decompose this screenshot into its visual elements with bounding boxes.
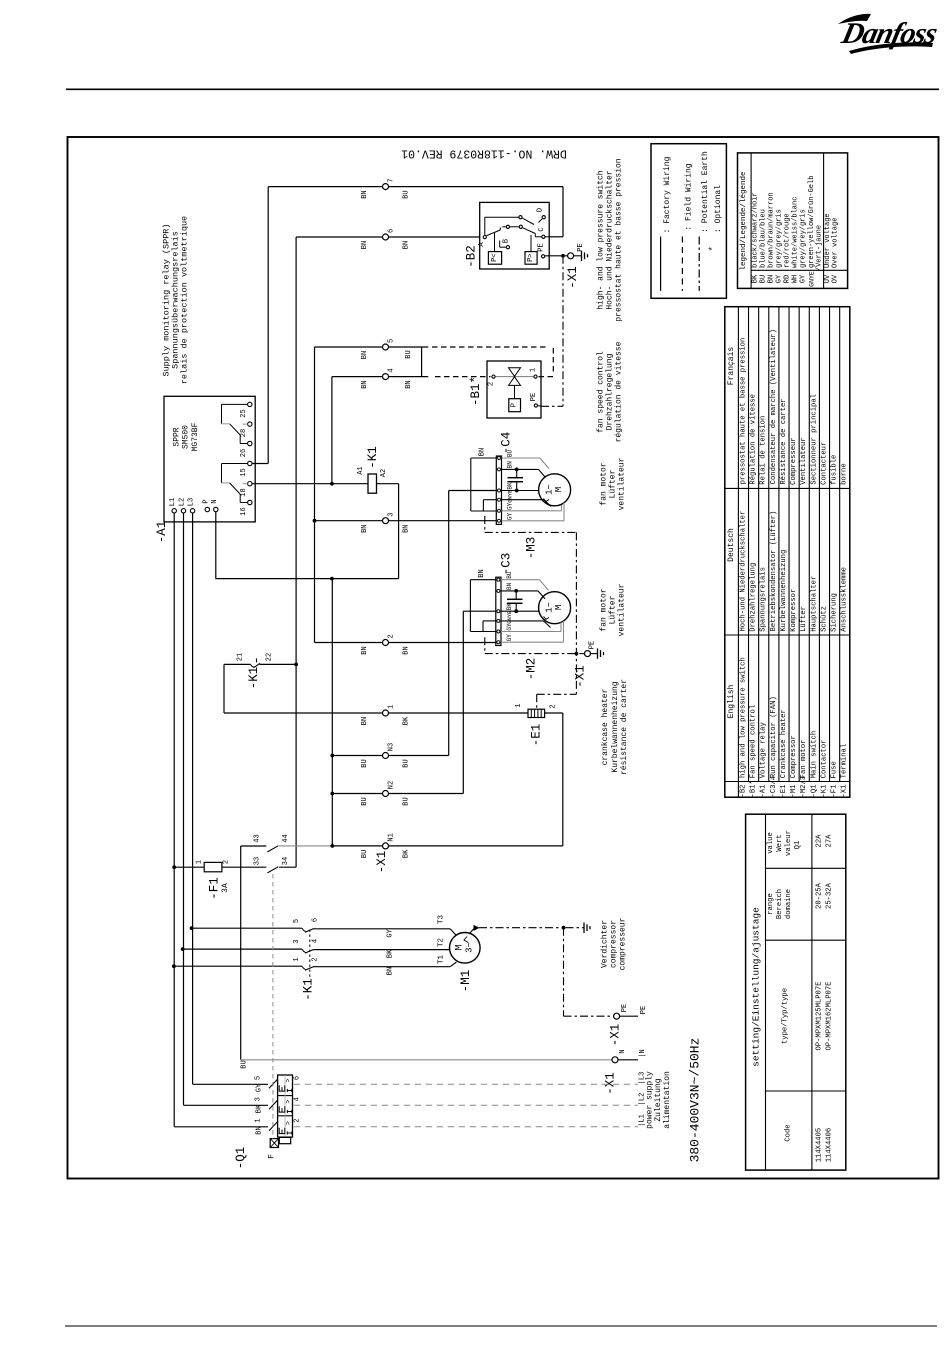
svg-text:Lüfter: Lüfter <box>609 595 618 624</box>
svg-text:-X1: -X1 <box>574 665 588 688</box>
svg-text:régulation de vitesse: régulation de vitesse <box>615 341 624 442</box>
wire 1 left <box>224 712 383 714</box>
wire 7 right <box>389 186 564 188</box>
svg-text:BU: BU <box>506 571 513 579</box>
main switch Q1 aux contact 43-44 <box>241 845 267 847</box>
svg-text:Anschlussklemme: Anschlussklemme <box>841 567 849 632</box>
svg-text:2: 2 <box>223 860 231 864</box>
svg-text:GY: GY <box>507 513 514 521</box>
K1 linkage dashed <box>309 930 311 979</box>
svg-text:Contacteur: Contacteur <box>820 442 828 485</box>
svg-text:value: value <box>767 832 775 854</box>
svg-text:BN: BN <box>361 380 369 388</box>
svg-text:GY: GY <box>800 274 808 283</box>
svg-text:15: 15 <box>240 468 248 476</box>
A1 contact 18 <box>248 482 252 486</box>
svg-text:fan motor: fan motor <box>600 462 609 505</box>
svg-text:BU: BU <box>405 350 413 358</box>
wire 7 drop to B2-C <box>562 187 564 237</box>
wire E1-2 down to N1 <box>562 713 564 846</box>
wire to X1-PE <box>565 255 568 257</box>
svg-text:Spannungsrelais: Spannungsrelais <box>760 567 768 632</box>
svg-text:F: F <box>268 1154 277 1159</box>
svg-text:6: 6 <box>294 1076 302 1080</box>
legend box colour codes <box>738 153 848 289</box>
wire N from A1 down <box>215 512 217 579</box>
junction wire3/wire5 bus <box>313 519 317 523</box>
svg-text:black/schwarz/noir: black/schwarz/noir <box>752 192 760 268</box>
svg-text:alimentation: alimentation <box>663 1071 672 1129</box>
svg-text:1: 1 <box>515 704 523 708</box>
M2 wiring BK <box>501 610 539 612</box>
terminal X1:4 <box>383 374 389 380</box>
svg-text:-F1: -F1 <box>208 877 222 900</box>
M3 thermal contact <box>544 499 550 502</box>
svg-text:BN: BN <box>361 524 369 532</box>
svg-text:44: 44 <box>282 834 290 842</box>
svg-text:Verdichter: Verdichter <box>601 920 610 968</box>
wire 1 right to E1 <box>389 712 529 714</box>
Danfoss logo <box>838 14 940 54</box>
svg-text:3: 3 <box>293 939 301 943</box>
svg-text:Q1: Q1 <box>794 841 802 850</box>
junction M1 PE <box>562 926 566 930</box>
Q1 aux block <box>279 1137 290 1143</box>
svg-text:grey/grey/gris: grey/grey/gris <box>800 209 808 268</box>
svg-text:-X1: -X1 <box>566 266 580 289</box>
fan speed control B1 box <box>487 361 541 418</box>
ground symbol (B2 group) <box>581 251 583 261</box>
M3 wiring BN <box>502 468 539 470</box>
svg-text:BK: BK <box>752 274 760 283</box>
Q1 trip bar grey <box>284 1075 286 1137</box>
svg-text:1: 1 <box>196 860 204 864</box>
svg-text:BN: BN <box>478 569 486 577</box>
svg-text:: Potential Earth: : Potential Earth <box>701 151 710 233</box>
svg-text:Régulation de vitesse: Régulation de vitesse <box>750 394 758 485</box>
wire 2 left <box>315 642 383 644</box>
svg-text:43: 43 <box>254 834 262 842</box>
field wire to B1-1 dashed <box>539 376 554 378</box>
compressor motor M1 <box>450 933 481 964</box>
legend sample field wiring <box>681 237 683 291</box>
wire L3 bus vertical <box>192 512 194 1085</box>
svg-text:Betriebskondensator (Lüfter): Betriebskondensator (Lüfter) <box>770 511 778 632</box>
svg-text:BK: BK <box>506 603 513 611</box>
legend UV divider <box>823 153 825 289</box>
B1 terminal 1 <box>534 375 537 378</box>
terminal X1:N3 <box>383 753 389 759</box>
svg-text:Deutsch: Deutsch <box>727 528 736 562</box>
svg-text:Fan motor: Fan motor <box>800 740 808 779</box>
svg-text:Français: Français <box>727 347 736 386</box>
svg-text:D: D <box>537 208 545 212</box>
B2 P> link <box>530 235 532 252</box>
svg-text:BN: BN <box>361 717 369 725</box>
wire 7 vertical to A1-26 <box>267 187 269 464</box>
junction F1 tap on L1 <box>172 865 176 869</box>
svg-text:P: P <box>202 499 210 503</box>
svg-text:BK: BK <box>386 949 394 958</box>
svg-text:ventilateur: ventilateur <box>618 457 627 510</box>
svg-text:fan motor: fan motor <box>600 588 609 631</box>
svg-text:white/weiss/blanc: white/weiss/blanc <box>792 197 800 268</box>
legend box line styles <box>651 144 726 299</box>
wire 6 left <box>296 236 382 238</box>
Q1 linkage dashed <box>272 874 274 1139</box>
svg-text:BU: BU <box>361 850 369 858</box>
wire neutral supply vertical <box>240 846 242 1060</box>
svg-text:fusible: fusible <box>831 455 839 485</box>
svg-text:GY: GY <box>386 928 394 937</box>
svg-text:grey/grey/gris: grey/grey/gris <box>776 209 784 268</box>
M3 wiring BK <box>502 490 539 492</box>
svg-text:T3: T3 <box>438 915 446 925</box>
crankcase heater E1 <box>528 709 545 717</box>
C3 strip terminal <box>497 619 500 622</box>
M3 wiring GNYE <box>502 499 545 501</box>
svg-text:BN: BN <box>767 275 775 283</box>
wire N horizontal <box>215 578 398 580</box>
svg-text:-K1: -K1 <box>247 667 261 690</box>
A1 contact internal wiring lower <box>222 463 248 465</box>
svg-text:>: > <box>285 1078 293 1082</box>
M2 thermal contact <box>544 616 550 619</box>
A1 contact 26 <box>248 441 252 445</box>
svg-text:1: 1 <box>388 705 396 709</box>
svg-text:2: 2 <box>550 704 558 708</box>
svg-text:A1: A1 <box>357 466 365 474</box>
wire 3 left <box>315 520 383 522</box>
A1 terminal N <box>214 507 218 511</box>
svg-text:-Q1: -Q1 <box>234 1147 248 1170</box>
svg-text:BN: BN <box>361 646 369 654</box>
svg-text:Relai de tension: Relai de tension <box>760 416 768 485</box>
svg-text:Bereich: Bereich <box>776 889 784 919</box>
contactor K1 main contact 5-6 <box>192 927 302 929</box>
svg-text:3: 3 <box>254 1097 262 1101</box>
svg-text:L3: L3 <box>187 498 195 506</box>
svg-text:22A: 22A <box>816 834 824 848</box>
svg-text:N3: N3 <box>388 743 396 751</box>
svg-text:PE: PE <box>640 1006 648 1014</box>
wire 4 left <box>332 376 383 378</box>
svg-text:Compressor: Compressor <box>790 735 798 778</box>
svg-text:BN: BN <box>386 967 394 975</box>
svg-text:GY: GY <box>776 274 784 283</box>
ground symbol (M1) <box>583 923 585 933</box>
svg-text:*: * <box>708 246 718 251</box>
svg-text:BN: BN <box>506 582 513 590</box>
wire A2 down <box>398 484 400 579</box>
svg-text:UV: UV <box>824 274 832 283</box>
svg-text:C: C <box>538 227 546 231</box>
svg-text:relais de protection voltmetri: relais de protection voltmetrique <box>180 216 190 384</box>
svg-text:|L1: |L1 <box>639 1114 647 1127</box>
svg-text:borne: borne <box>841 463 849 485</box>
svg-text:114X4406: 114X4406 <box>826 1128 834 1163</box>
svg-text:27A: 27A <box>826 834 834 848</box>
svg-text:1: 1 <box>293 957 301 961</box>
terminal X1:PE (fans) <box>585 651 591 657</box>
svg-text:type/Typ/type: type/Typ/type <box>781 988 789 1044</box>
legend header divider <box>750 153 752 289</box>
A1 contact 16 <box>248 500 252 504</box>
svg-text:compressor: compressor <box>610 920 619 968</box>
svg-text:1~: 1~ <box>545 602 555 613</box>
C3 strip terminal <box>497 630 500 633</box>
M2 wiring GY2 grey <box>501 641 564 643</box>
svg-text:Condensateur de marche (Ventil: Condensateur de marche (Ventilateur) <box>770 329 778 484</box>
svg-text:Crankcase heater: Crankcase heater <box>780 709 788 778</box>
terminal X1:1 <box>383 710 389 716</box>
Q1 output dashed wires <box>294 1083 638 1085</box>
svg-text:A2: A2 <box>380 469 388 477</box>
svg-text:-C3/4: -C3/4 <box>770 776 778 798</box>
A1 contact 25 <box>248 402 252 406</box>
wire coil A2 out <box>377 483 399 485</box>
svg-text:20-25A: 20-25A <box>816 882 824 909</box>
svg-text:GY: GY <box>506 634 513 642</box>
svg-text:1~: 1~ <box>545 484 555 495</box>
wire 6 right to B2-A <box>389 236 480 238</box>
svg-text:BN: BN <box>403 524 411 532</box>
svg-text:Lüfter: Lüfter <box>800 606 808 632</box>
C4 strip terminal <box>498 519 501 522</box>
svg-text:Fuse: Fuse <box>831 761 839 778</box>
terminal X1:N <box>612 1057 618 1063</box>
contactor K1 main contact 3-4 <box>183 948 302 950</box>
C4 to N3 wire <box>449 490 497 492</box>
svg-text:Ventilateur: Ventilateur <box>800 437 808 484</box>
B2 terminal PE <box>542 255 545 258</box>
svg-text:1: 1 <box>254 1118 262 1122</box>
B2 pressure element P> <box>525 252 537 265</box>
wire A1-26 stub <box>252 463 268 465</box>
svg-text:34: 34 <box>282 857 290 865</box>
B1 terminal 2 <box>492 375 495 378</box>
terminal X1:2 <box>383 640 389 646</box>
svg-text:T1: T1 <box>438 955 446 965</box>
svg-text:Terminal: Terminal <box>841 744 849 779</box>
svg-text:BU: BU <box>403 190 411 198</box>
svg-text:-X1: -X1 <box>375 851 389 874</box>
svg-text:28: 28 <box>240 429 248 437</box>
svg-text:21: 21 <box>237 653 245 661</box>
B1 internal wire grey <box>496 376 534 378</box>
svg-text:green-yellow/Grün-Gelb: green-yellow/Grün-Gelb <box>808 176 816 268</box>
svg-text:high- and low pressure switch: high- and low pressure switch <box>597 170 606 309</box>
svg-text:BU: BU <box>361 797 369 805</box>
diagram border frame <box>68 137 939 1179</box>
C4 strip terminal <box>498 468 501 471</box>
svg-text:GNYE: GNYE <box>507 489 514 503</box>
terminal X1:PE (M1) <box>614 1013 620 1019</box>
B2 internal wiring <box>484 217 486 235</box>
wire L1 bus vertical <box>173 512 175 1127</box>
svg-text:valeur: valeur <box>785 830 793 856</box>
wire 21 down to wire1 <box>223 664 225 713</box>
wire 4 right <box>389 376 429 378</box>
junction 22/wire6 <box>294 663 298 667</box>
terminal X1:PE (B2) <box>568 253 574 259</box>
svg-text:Kompressor: Kompressor <box>790 589 798 632</box>
svg-text:Under voltage: Under voltage <box>824 213 832 268</box>
svg-text:L2: L2 <box>178 498 186 506</box>
svg-text:4: 4 <box>388 368 396 372</box>
svg-text:Hauptschalter: Hauptschalter <box>810 576 818 632</box>
M3 potential earth loop dash-dot <box>484 516 486 532</box>
svg-text:BK: BK <box>507 482 514 490</box>
contactor K1 main contact 1-2 <box>174 965 302 967</box>
pressure switch B2 box <box>480 202 550 269</box>
svg-text:BN: BN <box>361 190 369 198</box>
svg-text:high and low pressure switch: high and low pressure switch <box>739 657 747 778</box>
svg-text:BU: BU <box>760 275 768 283</box>
svg-text:>: > <box>285 1099 293 1103</box>
svg-text:2: 2 <box>294 1119 302 1123</box>
svg-text:OP-MPXM162MLP07E: OP-MPXM162MLP07E <box>826 981 834 1050</box>
C3 strip terminal <box>497 610 500 613</box>
wire link 5-4 bypass <box>421 347 423 377</box>
svg-text:-F1: -F1 <box>831 785 839 798</box>
svg-text:Over voltage: Over voltage <box>832 218 840 268</box>
svg-text:PE: PE <box>577 243 585 251</box>
junction N2 <box>330 792 334 796</box>
svg-text:-M2: -M2 <box>525 658 539 681</box>
svg-text:BU: BU <box>403 759 411 767</box>
C4 left links <box>471 457 497 459</box>
svg-text:-X1: -X1 <box>604 1072 618 1095</box>
svg-text:N2: N2 <box>388 781 396 789</box>
ground symbol (fan group) <box>597 648 599 658</box>
wire N1 left <box>332 845 382 847</box>
svg-text:SM500: SM500 <box>182 425 191 449</box>
svg-text:BU: BU <box>361 759 369 767</box>
wire 4 vertical to coil feed <box>331 377 333 484</box>
svg-text:OP-MPXM125MLP07E: OP-MPXM125MLP07E <box>816 981 824 1050</box>
svg-text:GNYE: GNYE <box>506 610 513 624</box>
svg-text:P<: P< <box>491 253 499 261</box>
svg-text:-A1: -A1 <box>155 521 169 544</box>
svg-text:T2: T2 <box>438 938 446 947</box>
svg-text:6: 6 <box>388 229 396 233</box>
svg-text:BN: BN <box>256 1126 264 1134</box>
svg-text:Drehzahlregelung: Drehzahlregelung <box>750 563 758 632</box>
junction L2 tap <box>181 947 185 951</box>
legend code divider <box>751 269 848 271</box>
svg-text:PE: PE <box>621 1004 629 1012</box>
svg-text:-M1: -M1 <box>790 785 798 798</box>
svg-text:-B2: -B2 <box>739 785 747 798</box>
svg-text:|L3: |L3 <box>639 1072 647 1085</box>
svg-text:N: N <box>211 499 219 503</box>
svg-text:DRW. NO.-118R0379 REV.01: DRW. NO.-118R0379 REV.01 <box>401 146 567 159</box>
B2 terminal A <box>483 236 486 239</box>
svg-text:fan speed control: fan speed control <box>597 351 606 433</box>
M1 PE dash-dot to X1 <box>564 1015 614 1017</box>
svg-text:-M1: -M1 <box>459 970 473 993</box>
svg-text:1: 1 <box>530 368 538 372</box>
N stub <box>618 1059 638 1061</box>
junction N bus top <box>330 577 334 581</box>
svg-text:Sectionneur principal: Sectionneur principal <box>810 394 818 485</box>
main switch Q1 aux contact 33-34 <box>267 867 278 873</box>
svg-text:-E1: -E1 <box>780 785 788 798</box>
svg-text:|N: |N <box>639 1049 647 1057</box>
junction PE node <box>561 254 565 258</box>
svg-text:/Vert-jaune: /Vert-jaune <box>816 225 824 271</box>
terminal X1:N1 <box>383 843 389 849</box>
B2 terminal C <box>542 235 545 238</box>
wire 7 left <box>268 186 382 188</box>
field wire corner dashed <box>552 348 554 375</box>
svg-text:2: 2 <box>488 382 496 386</box>
terminal X1:6 <box>383 234 389 240</box>
svg-text:33: 33 <box>254 857 262 865</box>
C4 strip terminal <box>498 457 501 460</box>
M2 wiring BN <box>501 590 538 592</box>
bottom rule <box>65 1325 937 1327</box>
svg-text:BN: BN <box>507 461 514 469</box>
B2 P< link <box>494 233 496 252</box>
B1 PE stub <box>538 405 541 407</box>
svg-text:power supply: power supply <box>646 1071 655 1129</box>
svg-text:Fan speed control: Fan speed control <box>750 705 758 778</box>
svg-text:Schütz: Schütz <box>820 606 828 632</box>
wire E1-2 out <box>545 712 563 714</box>
svg-text:pressostat haute et basse pres: pressostat haute et basse pression <box>739 338 747 485</box>
svg-text:Hoch-und Niederdruckschalter: Hoch-und Niederdruckschalter <box>739 511 747 632</box>
wire 5 right <box>389 346 429 348</box>
capacitor C4 <box>508 477 524 479</box>
svg-text:7: 7 <box>388 178 396 182</box>
svg-text:B: B <box>503 239 511 243</box>
svg-text:MG73BF: MG73BF <box>191 422 200 451</box>
svg-text:-X1: -X1 <box>841 785 849 798</box>
svg-text:compresseur: compresseur <box>619 917 628 970</box>
svg-text:Wert: Wert <box>776 834 784 851</box>
C3 strip terminal <box>497 589 500 592</box>
svg-text:16: 16 <box>240 507 248 515</box>
C3 to N2 wire <box>463 610 496 612</box>
legend sample factory wiring <box>660 237 662 291</box>
svg-text:BU: BU <box>507 450 514 458</box>
C3 strip terminal <box>497 641 500 644</box>
svg-text:-A1: -A1 <box>760 785 768 798</box>
wire N1 right <box>389 845 563 847</box>
C4 strip terminal <box>498 509 501 512</box>
svg-text:GY: GY <box>256 1083 264 1092</box>
svg-text:P>: P> <box>527 253 535 261</box>
svg-text:red/rot/rouge: red/rot/rouge <box>784 213 792 268</box>
M1 PE dash-dot down <box>563 928 565 1017</box>
svg-text:OV: OV <box>832 274 840 283</box>
fan motor M3 <box>539 474 571 506</box>
svg-text:blue/blau/bleu: blue/blau/bleu <box>760 209 768 268</box>
svg-text:brown/braun/marron: brown/braun/marron <box>767 192 775 268</box>
svg-text:PE: PE <box>589 641 597 649</box>
svg-text:BK: BK <box>403 716 411 725</box>
svg-text:English: English <box>727 685 736 719</box>
svg-text:Code: Code <box>784 1124 792 1141</box>
svg-text:22: 22 <box>266 653 274 661</box>
svg-text:M: M <box>554 605 564 610</box>
svg-text:|L2: |L2 <box>639 1093 647 1106</box>
svg-text:setting/Einstellung/ajustage: setting/Einstellung/ajustage <box>751 907 762 1067</box>
svg-text:: Field Wiring: : Field Wiring <box>685 163 694 230</box>
field wire 5 dashed <box>432 346 549 348</box>
